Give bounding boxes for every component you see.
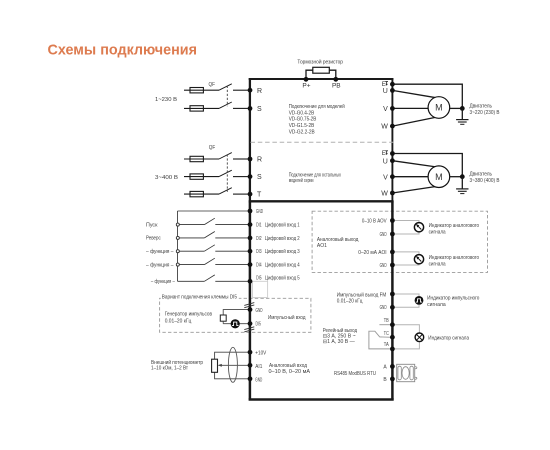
svg-text:GND: GND [380, 305, 387, 311]
svg-text:QF: QF [209, 82, 216, 88]
svg-text:VD-G1.5-2B: VD-G1.5-2B [289, 123, 315, 129]
svg-text:Импульсный вход: Импульсный вход [268, 314, 306, 321]
svg-text:Цифровой вход 4: Цифровой вход 4 [265, 262, 300, 269]
svg-text:⊟1 А, 30 В —: ⊟1 А, 30 В — [323, 339, 355, 345]
svg-text:TA: TA [384, 342, 390, 348]
svg-text:U: U [383, 88, 388, 95]
svg-text:V: V [383, 106, 388, 113]
svg-text:0.01–20 кГц: 0.01–20 кГц [337, 298, 363, 304]
svg-text:GND: GND [380, 263, 387, 269]
svg-text:Схемы подключения: Схемы подключения [48, 41, 198, 58]
svg-text:W: W [381, 191, 388, 198]
svg-text:Аналоговый вход: Аналоговый вход [269, 362, 307, 369]
svg-text:Цифровой вход 1: Цифровой вход 1 [265, 222, 300, 229]
svg-text:AO1: AO1 [317, 243, 327, 249]
svg-text:0–10 В, 0–20 мА: 0–10 В, 0–20 мА [269, 369, 311, 375]
svg-text:Пуск: Пуск [146, 222, 158, 228]
svg-text:сигнала: сигнала [427, 302, 446, 308]
svg-text:DI3: DI3 [256, 249, 262, 255]
svg-text:Индикатор импульсного: Индикатор импульсного [427, 296, 480, 302]
svg-text:моделей серии: моделей серии [289, 177, 314, 184]
svg-text:Генератор импульсов: Генератор импульсов [165, 312, 213, 318]
svg-text:Цифровой вход 5: Цифровой вход 5 [265, 275, 300, 282]
svg-text:R: R [257, 88, 262, 95]
svg-text:1–10 кОм, 1–2 Вт: 1–10 кОм, 1–2 Вт [151, 365, 189, 371]
svg-text:3~400 В: 3~400 В [155, 175, 179, 181]
svg-text:RS485 ModBUS RTU: RS485 ModBUS RTU [334, 371, 376, 377]
svg-text:– функция –: – функция – [146, 262, 174, 268]
svg-text:QF: QF [209, 145, 216, 151]
svg-text:Индикатор сигнала: Индикатор сигнала [428, 335, 469, 341]
svg-text:0–10 В AOV: 0–10 В AOV [362, 218, 387, 224]
svg-text:TC: TC [384, 331, 389, 337]
svg-text:– функция –: – функция – [151, 279, 175, 285]
svg-text:GND: GND [380, 232, 387, 238]
svg-text:V: V [383, 174, 388, 181]
svg-text:T: T [257, 192, 262, 199]
svg-text:GND: GND [255, 377, 262, 383]
svg-text:Тормозной резистор: Тормозной резистор [297, 58, 343, 65]
svg-text:DI2: DI2 [256, 236, 262, 242]
svg-text:S: S [257, 106, 262, 113]
svg-text:VD-G0.4-2B: VD-G0.4-2B [289, 110, 315, 116]
svg-text:M: M [435, 172, 443, 182]
svg-text:сигнала: сигнала [429, 262, 446, 268]
svg-text:1~230 В: 1~230 В [155, 97, 178, 103]
svg-text:E: E [382, 82, 386, 88]
svg-text:VD-G2.2-2B: VD-G2.2-2B [289, 129, 316, 135]
svg-text:Двигатель: Двигатель [470, 103, 493, 109]
svg-text:Цифровой вход 3: Цифровой вход 3 [265, 248, 300, 255]
svg-text:GND: GND [256, 308, 263, 314]
svg-text:VD-G0.75-2B: VD-G0.75-2B [289, 117, 317, 123]
svg-text:Реверс: Реверс [146, 236, 161, 242]
svg-text:Индикатор аналогового: Индикатор аналогового [429, 223, 480, 229]
svg-text:DI5: DI5 [256, 322, 262, 328]
svg-text:Индикатор аналогового: Индикатор аналогового [429, 255, 480, 261]
svg-text:Двигатель: Двигатель [470, 172, 493, 178]
svg-text:W: W [381, 124, 388, 131]
svg-text:– функция –: – функция – [146, 249, 174, 255]
svg-text:Подключение для моделей: Подключение для моделей [289, 103, 345, 110]
svg-text:TB: TB [384, 318, 390, 324]
svg-text:DI1: DI1 [256, 223, 262, 229]
svg-text:сигнала: сигнала [429, 230, 446, 236]
svg-text:3~220 (230) В: 3~220 (230) В [470, 110, 501, 116]
svg-text:S: S [257, 174, 262, 181]
svg-text:0.01–20 кГц: 0.01–20 кГц [165, 319, 192, 325]
svg-text:0–20 мА AOI: 0–20 мА AOI [358, 250, 386, 256]
svg-text:M: M [435, 103, 443, 113]
svg-text:P+: P+ [302, 82, 310, 89]
svg-text:3~380 (400) В: 3~380 (400) В [470, 178, 501, 184]
svg-text:GND: GND [256, 209, 263, 215]
svg-text:Цифровой вход 2: Цифровой вход 2 [265, 235, 300, 242]
svg-text:+10V: +10V [255, 351, 267, 357]
svg-text:DI5: DI5 [256, 276, 262, 282]
svg-text:E: E [382, 151, 386, 157]
svg-text:PB: PB [332, 82, 341, 89]
svg-text:U: U [383, 158, 388, 165]
svg-text:R: R [257, 157, 262, 164]
svg-text:AI1: AI1 [255, 364, 262, 370]
svg-text:DI4: DI4 [256, 263, 262, 269]
svg-text:Вариант подключения клеммы DI5: Вариант подключения клеммы DI5 [162, 295, 237, 301]
